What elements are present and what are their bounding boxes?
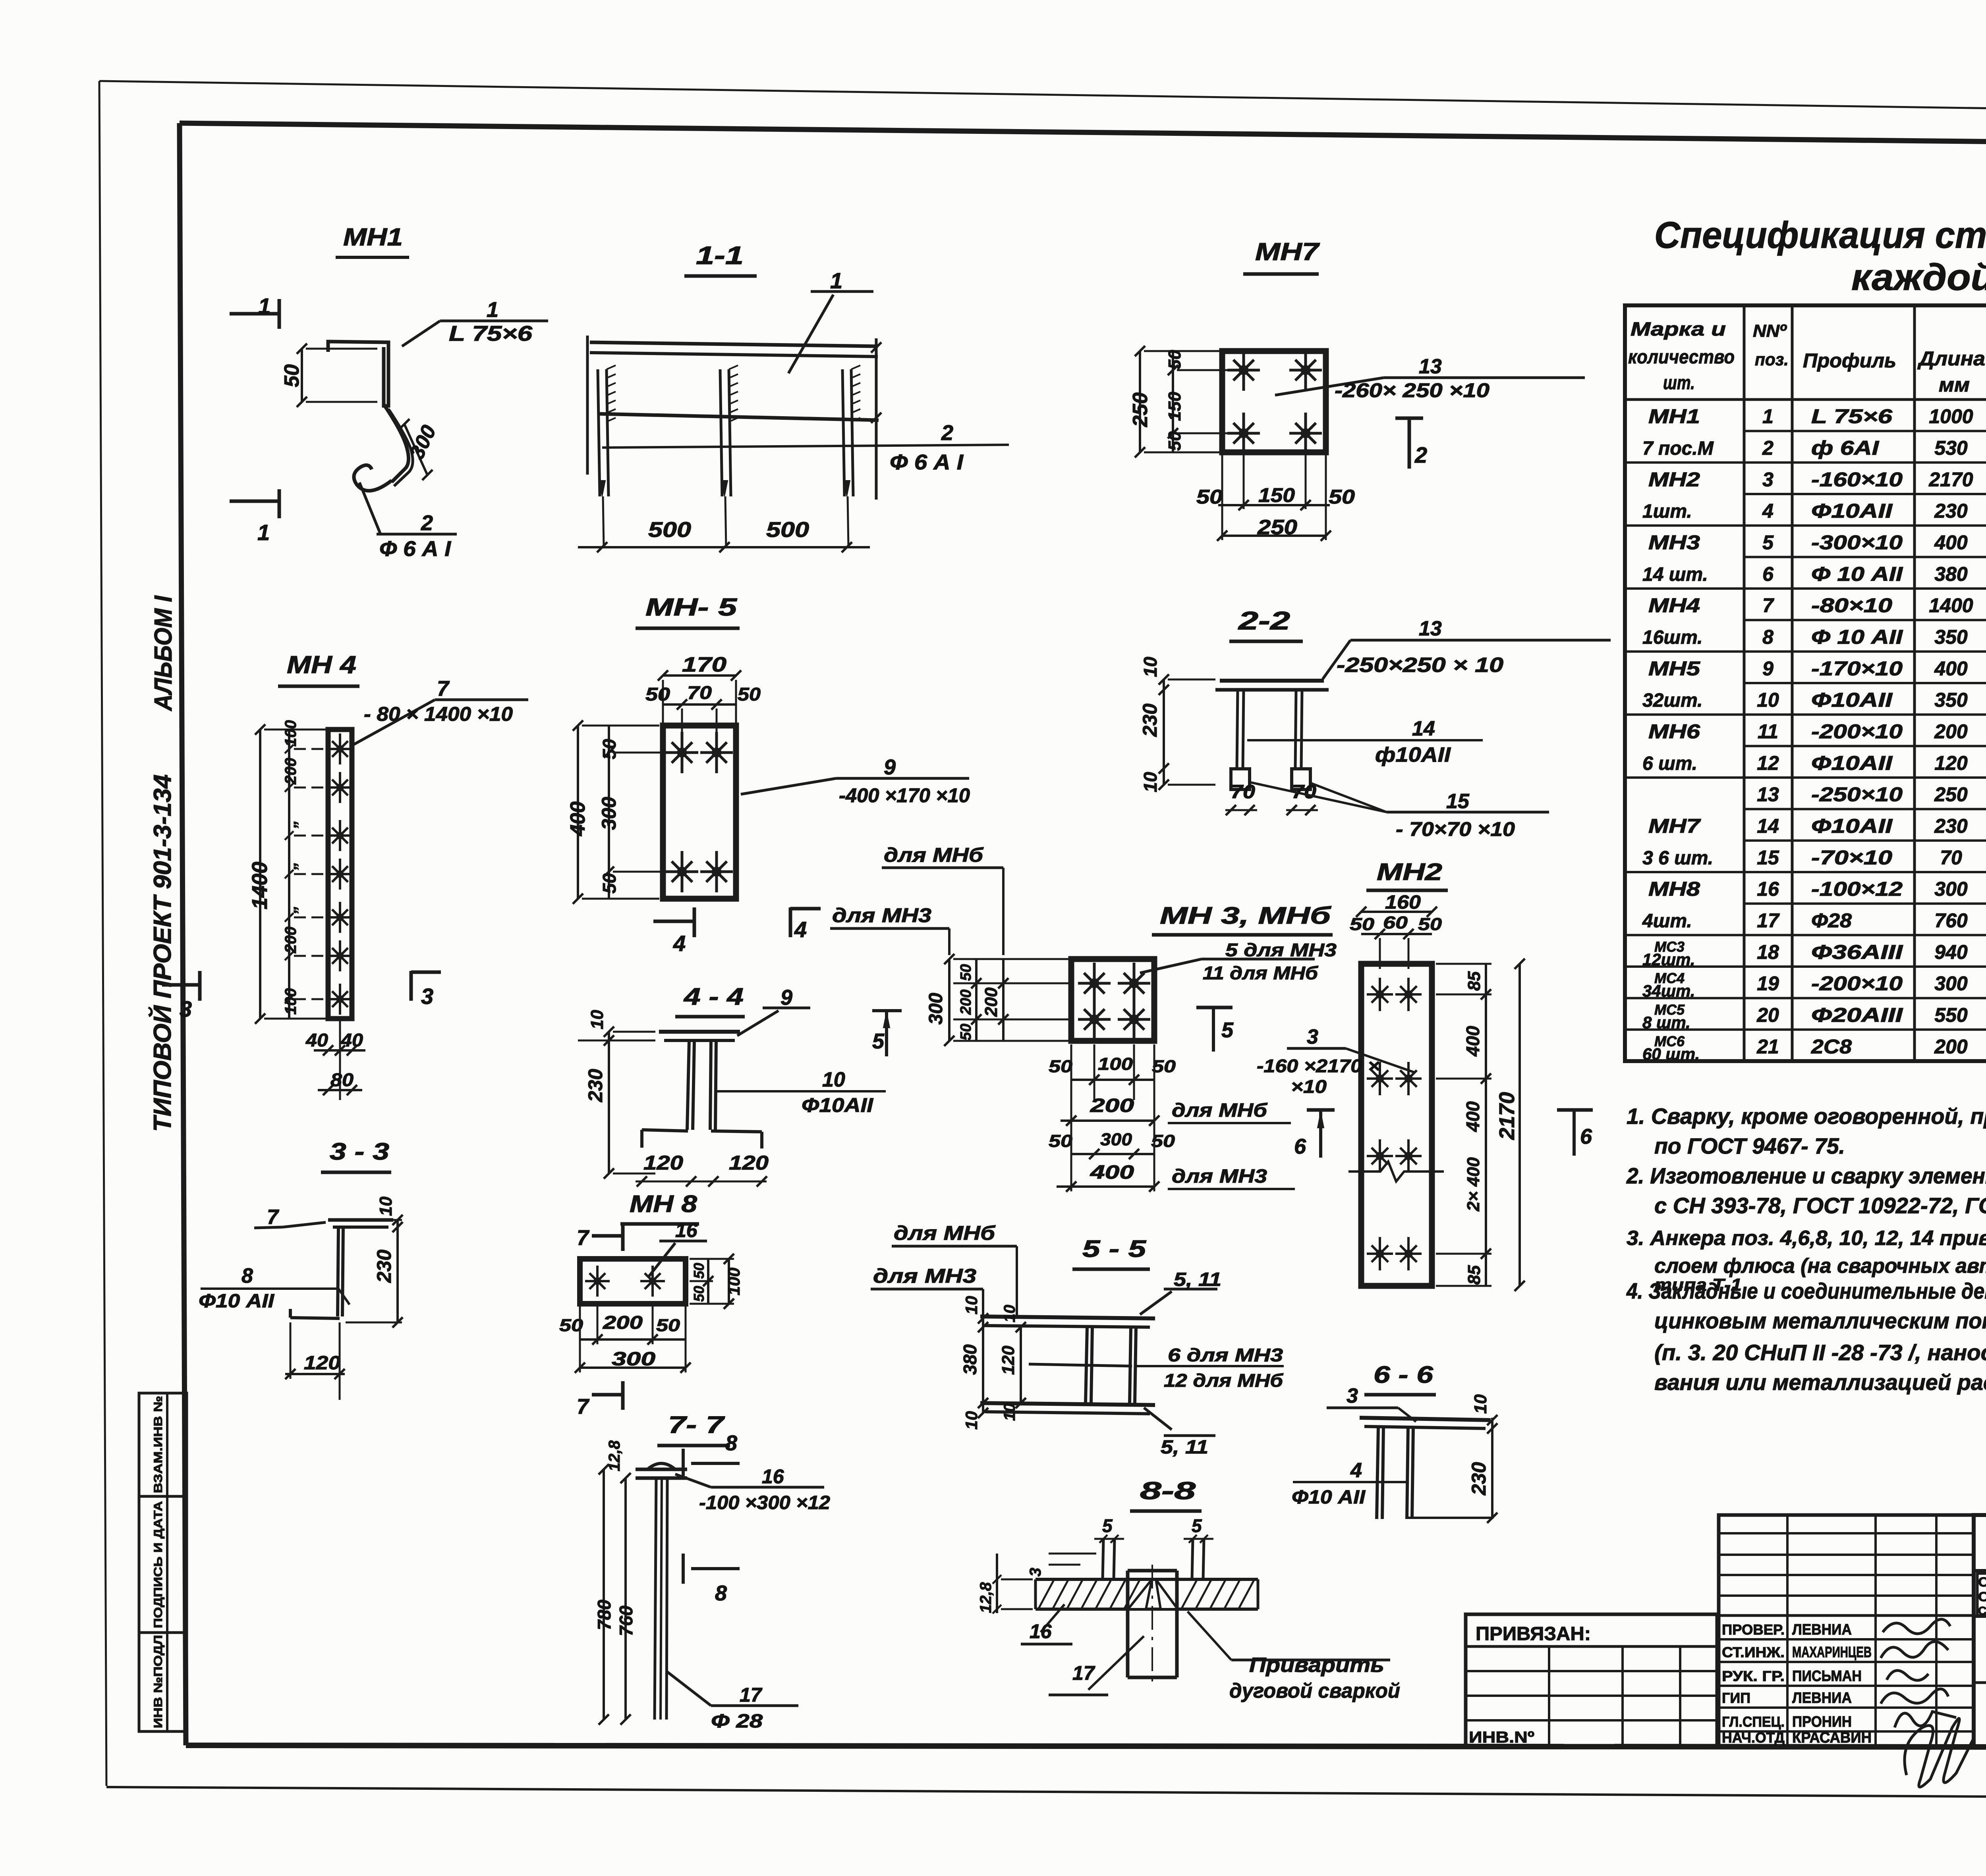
svg-text:1. Сварку, кроме оговоренной,: 1. Сварку, кроме оговоренной, производит… xyxy=(1627,1104,1986,1129)
svg-text:Профиль: Профиль xyxy=(1803,349,1896,372)
svg-text:120: 120 xyxy=(1934,752,1968,774)
5-5 web legs xyxy=(1086,1327,1136,1403)
svg-text:500: 500 xyxy=(648,518,691,542)
label dlya MN3 upper xyxy=(830,904,949,955)
svg-text:Приварить: Приварить xyxy=(1249,1654,1384,1677)
6-6 top flange xyxy=(1360,1418,1491,1428)
section 8-8 title xyxy=(1130,1477,1202,1511)
MN4 anchor dash lines xyxy=(294,749,328,999)
8-8 weld bevels xyxy=(1128,1579,1178,1609)
3-3 flange and web xyxy=(328,1220,393,1316)
svg-text:10: 10 xyxy=(1140,656,1161,677)
svg-text:780: 780 xyxy=(594,1600,614,1630)
MN-5 left dim 50 300 50 xyxy=(598,726,691,899)
MN2 anchor crosses xyxy=(1367,978,1422,1270)
1-1 angle horizontal leg xyxy=(587,336,878,475)
svg-text:2170: 2170 xyxy=(1495,1092,1519,1140)
labels dlya MN6 MN3 at 5-5 xyxy=(871,1222,1017,1316)
svg-text:300: 300 xyxy=(925,993,947,1025)
svg-text:12шт.: 12шт. xyxy=(1642,950,1695,969)
svg-text:32шт.: 32шт. xyxy=(1642,690,1702,711)
svg-text:ГИП: ГИП xyxy=(1722,1690,1750,1706)
detail MN8 title xyxy=(620,1191,699,1224)
svg-text:МН2: МН2 xyxy=(1648,468,1700,490)
MN1 label poz 2 f6AI xyxy=(359,483,457,561)
7-7 bolt head and washer xyxy=(636,1463,687,1478)
detail MN3 MN6 title xyxy=(1152,902,1333,935)
section 1-1 title xyxy=(684,241,757,276)
svg-text:21: 21 xyxy=(1756,1035,1779,1058)
8-8 plate hatching xyxy=(1039,1580,1254,1608)
left margin stamp boxes xyxy=(139,1393,187,1731)
MN-5 left dim 400 xyxy=(566,720,659,904)
section marker 4 left xyxy=(653,907,694,956)
svg-text:50: 50 xyxy=(1049,1131,1073,1151)
svg-text:80: 80 xyxy=(330,1069,354,1090)
MN1 angle L75x6 body xyxy=(328,342,409,491)
3-3 label poz 8 f10AII xyxy=(199,1264,350,1312)
4-4 web legs xyxy=(687,1040,716,1130)
MN2 plate 160x2170 xyxy=(1361,964,1432,1286)
svg-text:ПРИВЯЗАН:: ПРИВЯЗАН: xyxy=(1476,1623,1591,1644)
svg-text:3: 3 xyxy=(180,996,192,1021)
svg-text:4: 4 xyxy=(794,917,807,942)
section 6-6 title xyxy=(1364,1361,1436,1395)
svg-text:17: 17 xyxy=(740,1684,763,1706)
svg-text:ПРОВЕР.: ПРОВЕР. xyxy=(1722,1621,1785,1638)
svg-text:70: 70 xyxy=(1231,782,1255,803)
detail MN-5 title xyxy=(636,594,740,628)
svg-text:с СН 393-78, ГОСТ 10922-72, ГО: с СН 393-78, ГОСТ 10922-72, ГОСТ 19292-7… xyxy=(1654,1193,1986,1218)
8-8 label poz 17 xyxy=(1049,1636,1144,1695)
svg-text:-200×10: -200×10 xyxy=(1811,720,1903,743)
svg-text:200: 200 xyxy=(282,926,299,953)
3-3 bottom dim 120 xyxy=(285,1322,345,1400)
svg-text:Ф10АII: Ф10АII xyxy=(1811,752,1893,774)
2-2 dim 70 70 xyxy=(1225,782,1318,815)
svg-text:МАХАРИНЦЕВ: МАХАРИНЦЕВ xyxy=(1792,1644,1872,1661)
svg-text:-100×12: -100×12 xyxy=(1811,878,1903,900)
section marker 5 left xyxy=(872,1011,902,1056)
svg-text:400: 400 xyxy=(1934,531,1968,554)
7-7 bolt rod poz 17 xyxy=(655,1478,667,1720)
station small text lines xyxy=(1978,1575,1986,1617)
svg-text:300: 300 xyxy=(1934,973,1968,995)
svg-text:-170×10: -170×10 xyxy=(1811,657,1903,679)
svg-text:9: 9 xyxy=(884,755,896,779)
MN4 left dim 1400 xyxy=(248,724,326,1024)
4-4 label poz 9 leader xyxy=(737,986,810,1036)
svg-text:4: 4 xyxy=(1762,500,1773,522)
svg-text:МН- 5: МН- 5 xyxy=(645,594,738,621)
svg-text:15: 15 xyxy=(1757,846,1779,869)
svg-text:ЛЕВНИА: ЛЕВНИА xyxy=(1792,1690,1852,1706)
svg-text:-400 ×170 ×10: -400 ×170 ×10 xyxy=(839,784,970,807)
svg-text:1: 1 xyxy=(1762,405,1773,428)
svg-text:50: 50 xyxy=(645,684,670,704)
MN2 right dim 2170 xyxy=(1495,959,1525,1291)
svg-text:17: 17 xyxy=(1072,1662,1095,1684)
svg-text:количество: количество xyxy=(1628,347,1735,368)
svg-text:760: 760 xyxy=(616,1606,636,1636)
svg-text:для МН3: для МН3 xyxy=(832,904,931,926)
svg-text:200: 200 xyxy=(1090,1095,1134,1116)
svg-text:КРАСАВИН: КРАСАВИН xyxy=(1792,1729,1872,1746)
5-5 top flange xyxy=(980,1316,1155,1327)
section 7-7 title xyxy=(657,1411,730,1446)
svg-text:70: 70 xyxy=(1940,846,1962,869)
spec table data rows xyxy=(1756,405,1986,1058)
svg-text:5: 5 xyxy=(872,1029,885,1053)
3-3 right dims 10 230 xyxy=(346,1197,403,1328)
svg-text:Ф10АII: Ф10АII xyxy=(802,1094,873,1116)
svg-text:7: 7 xyxy=(437,677,450,701)
svg-text:50: 50 xyxy=(691,1286,707,1302)
svg-text:4 - 4: 4 - 4 xyxy=(684,983,744,1010)
MN-5 plate 400x170 xyxy=(663,726,736,899)
svg-text:- 70×70 ×10: - 70×70 ×10 xyxy=(1396,818,1515,840)
2-2 label poz 13 -250x250x10 xyxy=(1323,617,1611,679)
MN8 anchor crosses xyxy=(585,1266,665,1297)
svg-text:2: 2 xyxy=(941,421,953,445)
section marker 1 top xyxy=(230,293,279,329)
1-1 dim 500 500 xyxy=(578,518,870,552)
svg-text:11: 11 xyxy=(1758,720,1778,743)
svg-text:-250×10: -250×10 xyxy=(1811,784,1903,806)
svg-text:34шт.: 34шт. xyxy=(1642,982,1695,1000)
svg-text:-160 ×2170 ×: -160 ×2170 × xyxy=(1257,1056,1380,1076)
svg-text:Ф10 АII: Ф10 АII xyxy=(1292,1487,1366,1508)
MN2 top dim 160 xyxy=(1356,892,1437,917)
svg-text:6: 6 xyxy=(1762,563,1774,585)
signature table role labels xyxy=(1722,1621,1872,1746)
MN8 bottom dim 300 xyxy=(575,1307,691,1373)
MN8 bottom dim 50 200 50 xyxy=(559,1307,686,1345)
svg-text:ГЛ.СПЕЦ.: ГЛ.СПЕЦ. xyxy=(1722,1714,1785,1730)
svg-text:2× 400: 2× 400 xyxy=(1464,1157,1483,1212)
svg-text:1-1: 1-1 xyxy=(696,241,744,270)
4-4 bottom feet xyxy=(642,1130,762,1148)
svg-text:СТ.ИНЖ.: СТ.ИНЖ. xyxy=(1722,1644,1785,1660)
svg-text:1: 1 xyxy=(258,293,270,318)
3-3 label poz 7 xyxy=(254,1206,326,1229)
svg-text:вания или металлизацией рас: вания или металлизацией распылением. xyxy=(1654,1370,1986,1395)
svg-text:300: 300 xyxy=(612,1349,655,1370)
8-8 anchor studs poz 5 xyxy=(1094,1515,1213,1579)
svg-text:МН3: МН3 xyxy=(1648,531,1700,554)
svg-text:15: 15 xyxy=(1446,790,1470,813)
svg-text:1: 1 xyxy=(830,268,842,293)
svg-text:3: 3 xyxy=(1027,1568,1044,1577)
8-8 dims 12.8 3 xyxy=(977,1554,1096,1614)
MN4 left dim segments 100 200 xyxy=(282,720,299,1019)
svg-text:200: 200 xyxy=(1934,1035,1968,1058)
svg-text:100: 100 xyxy=(282,988,299,1015)
svg-text:12: 12 xyxy=(1757,752,1779,774)
svg-text:„: „ xyxy=(282,905,299,914)
svg-text:Спецификация стали на одну: Спецификация стали на одну штуку xyxy=(1654,214,1986,256)
1-1 right end vertical dim line xyxy=(871,338,881,500)
title block privyazan box xyxy=(1466,1614,1717,1747)
svg-text:поз.: поз. xyxy=(1755,350,1789,369)
svg-text:1: 1 xyxy=(257,520,270,545)
svg-text:ТИПОВОЙ ПРОЕКТ 901-3-134: ТИПОВОЙ ПРОЕКТ 901-3-134 xyxy=(148,774,176,1132)
signatures squiggles xyxy=(1881,1619,1974,1787)
svg-text:„: „ xyxy=(282,820,299,828)
1-1 label poz 2 f6AI leader xyxy=(602,421,1009,474)
svg-text:Ф 6 А I: Ф 6 А I xyxy=(379,537,451,561)
svg-text:550: 550 xyxy=(1934,1004,1968,1026)
svg-text:Ф 6 А I: Ф 6 А I xyxy=(890,450,964,474)
svg-text:МН1: МН1 xyxy=(343,224,403,251)
svg-text:L 75×6: L 75×6 xyxy=(1811,405,1893,428)
svg-text:для МНб: для МНб xyxy=(894,1222,996,1244)
section marker 3 right xyxy=(411,971,441,1009)
svg-text:100: 100 xyxy=(1098,1054,1133,1074)
svg-text:100: 100 xyxy=(282,720,299,747)
svg-text:8: 8 xyxy=(725,1431,737,1455)
svg-text:7: 7 xyxy=(577,1226,590,1250)
MN3 MN6 anchor crosses xyxy=(1078,963,1150,1040)
svg-text:50: 50 xyxy=(1152,1057,1176,1076)
svg-text:16: 16 xyxy=(762,1465,784,1488)
4-4 left dims 10 230 xyxy=(578,1010,655,1179)
svg-text:50: 50 xyxy=(280,364,303,387)
svg-text:10: 10 xyxy=(1757,689,1779,711)
svg-text:5: 5 xyxy=(1192,1515,1202,1536)
svg-text:L 75×6: L 75×6 xyxy=(449,322,533,345)
svg-text:7- 7: 7- 7 xyxy=(668,1411,725,1438)
MN4 bottom dim 80 xyxy=(318,1069,362,1095)
svg-text:230: 230 xyxy=(1139,703,1161,737)
svg-text:2: 2 xyxy=(1414,442,1427,467)
svg-text:530: 530 xyxy=(1934,437,1968,459)
label dlya MN6 upper xyxy=(882,844,1003,955)
MN3 MN6 bottom dim 400 dlya MN3 xyxy=(1057,1044,1295,1192)
svg-text:6 - 6: 6 - 6 xyxy=(1374,1361,1433,1388)
station text box border xyxy=(1977,1573,1986,1615)
svg-text:350: 350 xyxy=(1934,689,1968,711)
svg-text:МН5: МН5 xyxy=(1648,657,1700,679)
svg-text:МН 3, МНб: МН 3, МНб xyxy=(1160,902,1332,929)
5-5 bottom flange xyxy=(980,1403,1155,1414)
MN2 label poz 3 -160x2170x10 xyxy=(1257,1025,1414,1097)
MN-5 top dim 50 70 50 xyxy=(645,682,761,743)
MN4 anchor crosses xyxy=(328,733,352,1015)
svg-text:- 80 × 1400 ×10: - 80 × 1400 ×10 xyxy=(364,703,513,725)
8-8 label poz 16 xyxy=(1021,1604,1072,1644)
section 5-5 title xyxy=(1072,1235,1150,1269)
svg-text:дуговой сваркой: дуговой сваркой xyxy=(1229,1679,1400,1702)
svg-text:40: 40 xyxy=(305,1030,328,1050)
svg-text:3: 3 xyxy=(1347,1384,1358,1407)
svg-text:60: 60 xyxy=(1383,913,1408,932)
MN3 MN6 plate xyxy=(1071,959,1154,1041)
MN2 right dim segments 85 400 xyxy=(1436,964,1491,1286)
svg-text:120: 120 xyxy=(643,1152,683,1174)
svg-text:2-2: 2-2 xyxy=(1238,606,1290,635)
4-4 dim 120 120 xyxy=(636,1152,769,1187)
svg-text:40: 40 xyxy=(340,1030,363,1050)
MN4 label poz 7 -80x1400x10 xyxy=(354,677,528,745)
svg-text:10: 10 xyxy=(962,1411,981,1430)
svg-text:70: 70 xyxy=(687,682,712,703)
svg-text:6 для МН3: 6 для МН3 xyxy=(1168,1345,1283,1365)
svg-text:5, 11: 5, 11 xyxy=(1161,1437,1208,1458)
svg-text:для МНб: для МНб xyxy=(1172,1100,1267,1121)
2-2 left dims 10 230 10 xyxy=(1139,656,1215,792)
svg-text:СТАНЦИЯ ОЧИСТКИ ВОДЫ ПОВЕРХНОС: СТАНЦИЯ ОЧИСТКИ ВОДЫ ПОВЕРХНОСТНЫХ ИСТОЧ… xyxy=(1978,1575,1986,1589)
detail MN2 title xyxy=(1366,859,1448,890)
svg-text:16: 16 xyxy=(1757,878,1779,900)
MN1 label poz 1 L75x6 xyxy=(402,298,548,346)
svg-text:9: 9 xyxy=(780,986,792,1009)
svg-text:50: 50 xyxy=(599,873,620,894)
svg-text:200: 200 xyxy=(1934,720,1968,743)
5-5 label 5 11 top xyxy=(1140,1269,1221,1314)
svg-text:16: 16 xyxy=(675,1219,698,1241)
svg-text:NNº: NNº xyxy=(1753,321,1787,341)
svg-text:50: 50 xyxy=(1350,915,1375,934)
MN3 MN6 left dim 50 200 50 xyxy=(958,959,981,1041)
svg-text:7: 7 xyxy=(577,1395,590,1419)
svg-text:5, 11: 5, 11 xyxy=(1174,1269,1221,1290)
svg-text:Ф10 АII: Ф10 АII xyxy=(199,1291,275,1312)
svg-text:9: 9 xyxy=(1762,657,1773,679)
svg-text:17: 17 xyxy=(1757,909,1780,932)
svg-text:С СОДЕРЖАНИЕМ ВЗВЕШЕННЫХ ВЕЩЕС: С СОДЕРЖАНИЕМ ВЗВЕШЕННЫХ ВЕЩЕСТВ ДО 700 … xyxy=(1978,1589,1986,1604)
svg-text:230: 230 xyxy=(1934,815,1968,837)
svg-text:5: 5 xyxy=(1102,1515,1113,1536)
6-6 right dims 10 230 xyxy=(1468,1394,1497,1523)
svg-text:300: 300 xyxy=(405,422,440,463)
5-5 middle rung line xyxy=(1029,1364,1132,1366)
svg-text:ПОДПИСЬ И ДАТА: ПОДПИСЬ И ДАТА xyxy=(152,1501,165,1628)
svg-text:3: 3 xyxy=(1762,468,1773,490)
svg-text:60 шт.: 60 шт. xyxy=(1642,1044,1700,1063)
svg-text:2С8: 2С8 xyxy=(1811,1035,1852,1058)
spec table header bottom line xyxy=(1625,398,1986,401)
table header Dlina mm xyxy=(1917,347,1985,396)
svg-text:шт.: шт. xyxy=(1663,372,1695,394)
MN3 MN6 left dim 300 xyxy=(925,954,954,1046)
svg-text:14: 14 xyxy=(1412,717,1435,740)
svg-text:по ГОСТ 9467- 75.: по ГОСТ 9467- 75. xyxy=(1654,1133,1845,1158)
svg-text:для МНб: для МНб xyxy=(884,844,984,866)
svg-text:50: 50 xyxy=(599,739,620,759)
svg-text:мм: мм xyxy=(1939,374,1970,396)
svg-text:50: 50 xyxy=(1418,915,1442,934)
svg-text:ф10АII: ф10АII xyxy=(1375,743,1451,766)
MN8 label poz 16 xyxy=(648,1219,707,1277)
table header Marka i kolichestvo sht xyxy=(1628,319,1735,394)
svg-text:120: 120 xyxy=(304,1353,340,1374)
svg-text:8: 8 xyxy=(241,1264,253,1287)
svg-text:20: 20 xyxy=(1756,1004,1779,1026)
4-4 top flange xyxy=(659,1032,740,1040)
1-1 anchor rods with hatching xyxy=(598,365,860,547)
MN7 bottom dim 250 xyxy=(1217,452,1331,541)
svg-text:85: 85 xyxy=(1464,1265,1484,1285)
svg-text:-200×10: -200×10 xyxy=(1811,973,1903,995)
svg-text:АЛЬБОМ I: АЛЬБОМ I xyxy=(150,595,177,712)
svg-text:10: 10 xyxy=(1001,1305,1018,1323)
8-8 hatched plate poz 16 xyxy=(1036,1579,1258,1609)
svg-text:50: 50 xyxy=(1165,350,1184,369)
svg-text:380: 380 xyxy=(960,1344,980,1375)
svg-text:2. Изготовление и сварку эле: 2. Изготовление и сварку элементов произ… xyxy=(1626,1163,1986,1188)
svg-text:250: 250 xyxy=(1129,392,1152,427)
svg-text:5 для МН3: 5 для МН3 xyxy=(1225,940,1337,960)
2-2 top plate xyxy=(1215,681,1329,690)
svg-text:ВЗАМ.ИНВ №: ВЗАМ.ИНВ № xyxy=(152,1396,165,1493)
1-1 label poz 1 leader xyxy=(788,268,873,373)
svg-text:3: 3 xyxy=(421,984,433,1009)
svg-text:-300×10: -300×10 xyxy=(1811,531,1903,554)
svg-text:4: 4 xyxy=(673,931,686,956)
svg-text:6: 6 xyxy=(1294,1135,1306,1158)
8-8 label privarit dugovoy svarkoy xyxy=(1188,1612,1400,1702)
MN7 plate 260x250 xyxy=(1222,351,1326,452)
svg-text:4: 4 xyxy=(1350,1459,1362,1482)
svg-text:300: 300 xyxy=(598,797,620,830)
5-5 label 5 11 bottom xyxy=(1144,1408,1215,1458)
svg-text:200: 200 xyxy=(282,758,299,785)
MN1 dim 300 xyxy=(399,419,441,480)
svg-text:50: 50 xyxy=(1049,1057,1073,1076)
7-7 left dims 780 760 12.8 xyxy=(594,1440,636,1725)
svg-text:50: 50 xyxy=(691,1263,707,1279)
MN2 break line xyxy=(1348,1162,1444,1181)
svg-text:300: 300 xyxy=(1934,878,1968,900)
svg-text:400: 400 xyxy=(1462,1101,1483,1132)
MN3 MN6 bottom dim 50 300 50 xyxy=(1049,1130,1175,1159)
svg-text:2170: 2170 xyxy=(1928,468,1973,490)
svg-text:16: 16 xyxy=(1030,1620,1052,1642)
svg-text:Ф28: Ф28 xyxy=(1811,909,1852,932)
MN2 top dim 50 60 50 xyxy=(1350,913,1442,969)
svg-text:16шт.: 16шт. xyxy=(1642,627,1702,648)
svg-text:50: 50 xyxy=(1196,486,1223,508)
MN1 anchor strip poz 2 xyxy=(388,409,413,486)
svg-text:для МН3: для МН3 xyxy=(873,1265,976,1287)
MN8 plate 100x300 xyxy=(580,1259,686,1304)
MN4 bottom dim 40 40 xyxy=(305,1019,365,1100)
svg-text:230: 230 xyxy=(1468,1462,1490,1496)
svg-text:ПРОНИН: ПРОНИН xyxy=(1792,1714,1852,1730)
svg-text:50: 50 xyxy=(656,1316,680,1335)
svg-text:14: 14 xyxy=(1757,815,1779,837)
svg-text:2: 2 xyxy=(421,511,433,535)
svg-text:6 шт.: 6 шт. xyxy=(1642,753,1697,774)
svg-text:380: 380 xyxy=(1934,563,1968,585)
svg-text:РУК. ГР.: РУК. ГР. xyxy=(1722,1668,1785,1684)
svg-text:200: 200 xyxy=(958,990,974,1015)
svg-text:Ф20АIII: Ф20АIII xyxy=(1811,1004,1903,1026)
svg-text:8: 8 xyxy=(1762,626,1773,648)
svg-text:1шт.: 1шт. xyxy=(1642,501,1692,522)
MN7 label poz 13 -260x250x10 xyxy=(1275,355,1585,401)
svg-text:Ф 10 АII: Ф 10 АII xyxy=(1811,563,1903,585)
svg-text:250: 250 xyxy=(1257,516,1297,539)
svg-text:МН2: МН2 xyxy=(1377,859,1442,885)
svg-text:3 6 шт.: 3 6 шт. xyxy=(1642,847,1713,869)
svg-text:„: „ xyxy=(282,862,299,870)
svg-text:6: 6 xyxy=(1580,1125,1592,1148)
svg-text:Ф36АIII: Ф36АIII xyxy=(1811,941,1903,963)
svg-text:50: 50 xyxy=(738,684,761,704)
svg-text:Ф 10 АII: Ф 10 АII xyxy=(1811,626,1903,648)
